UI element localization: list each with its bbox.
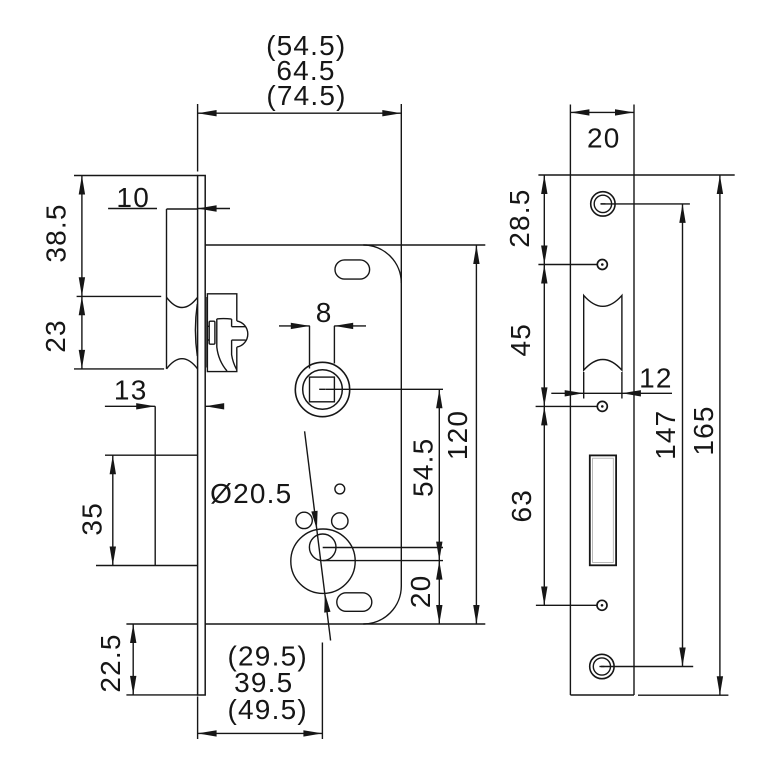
- svg-text:120: 120: [442, 410, 473, 460]
- hub dark bar: [206, 297, 208, 368]
- plate dim 20 arrows: [570, 109, 589, 115]
- dim 20 (plate) line: [570, 111, 634, 113]
- small circle right: [332, 513, 348, 529]
- latch bevel bottom arc: [167, 359, 198, 369]
- dim chain 28.5/45/63 vertical line: [543, 175, 545, 606]
- body bottom edge left extension for 22.5: [126, 623, 197, 625]
- svg-text:8: 8: [316, 297, 333, 328]
- dim 8: right segment: [334, 325, 366, 327]
- small hole 2: [597, 260, 607, 270]
- dim 13 arrows: [136, 403, 155, 409]
- bottom dim arrows: [198, 730, 217, 736]
- latch box top edge: [167, 208, 198, 210]
- hub lever right curve: [232, 340, 237, 369]
- dim 38.5/23: middle extension: [77, 295, 162, 297]
- lock body bottom edge + extension for 120: [205, 623, 485, 625]
- dim 12 arrows: [565, 390, 584, 396]
- top dim arrows: [198, 110, 217, 116]
- svg-text:45: 45: [505, 323, 536, 357]
- svg-text:10: 10: [116, 182, 150, 213]
- dim 45 arrows: [541, 265, 547, 284]
- svg-text:Ø20.5: Ø20.5: [210, 478, 292, 509]
- dim 35 vertical line: [112, 455, 114, 565]
- dim 54.5-64.5-74.5: left extension line: [197, 104, 199, 172]
- dim 20 arrows: [436, 561, 442, 580]
- dim top line: [198, 112, 402, 114]
- deadbolt top edge + 35 extension: [105, 454, 198, 456]
- svg-text:28.5: 28.5: [504, 188, 535, 247]
- bottom dim line: [198, 732, 323, 734]
- cylinder center extension line: [323, 560, 443, 562]
- svg-text:12: 12: [639, 362, 673, 393]
- hub lever top edge: [217, 318, 232, 321]
- arrowheads: [79, 109, 723, 736]
- hub housing box: [207, 294, 236, 372]
- deadbolt bottom edge + 35 extension: [96, 565, 198, 567]
- dim 35 arrows: [110, 455, 116, 474]
- follower center extension line: [326, 388, 443, 390]
- plate left edge: [569, 175, 571, 695]
- leader line for diameter 20.5: [305, 431, 331, 640]
- tiny circle: [335, 484, 345, 494]
- dim 13 line: [105, 405, 155, 407]
- dim 22.5 vertical line: [132, 624, 134, 695]
- svg-text:35: 35: [76, 502, 107, 536]
- small hole 3: [597, 401, 607, 411]
- dim 22.5 arrows: [130, 624, 136, 643]
- hole4 extension line: [536, 604, 597, 606]
- hub cap arc: [237, 321, 248, 347]
- dim 38.5/23 vertical line: [81, 176, 83, 369]
- dim 54.5 arrows: [436, 389, 442, 408]
- dim 8: left segment: [279, 325, 310, 327]
- hub knob stem lines: [232, 327, 246, 340]
- bottom screw hole: [590, 654, 614, 678]
- dim 13 right arrow tail: [205, 405, 224, 407]
- dim 38.5/23: bottom extension: [74, 368, 164, 370]
- bottom oval slot: [337, 593, 372, 612]
- svg-text:38.5: 38.5: [41, 203, 72, 262]
- latch box left edge: [166, 209, 168, 369]
- dim 20 (plate) extensions: [569, 105, 571, 176]
- svg-text:147: 147: [650, 410, 681, 460]
- svg-text:(49.5): (49.5): [228, 694, 308, 725]
- dim 120 vertical line: [475, 245, 477, 624]
- dim 28.5 arrows: [541, 175, 547, 194]
- plate bottom right extension for 165: [638, 694, 728, 696]
- dim 165 arrows: [717, 175, 723, 194]
- cylinder hole circle: [291, 529, 355, 593]
- hub pin box: [209, 321, 215, 344]
- dim 23 arrows: [79, 296, 85, 315]
- dim 8 left extension: [309, 326, 311, 369]
- deadbolt cutout inner line: [593, 458, 614, 562]
- plate bottom edge: [570, 694, 634, 696]
- leader arrows: [311, 511, 317, 530]
- follower square hole 8mm: [310, 377, 335, 402]
- svg-text:22.5: 22.5: [95, 633, 126, 692]
- hole2 extension line: [538, 264, 597, 266]
- hub lever right edge upper: [231, 319, 233, 327]
- top oval slot: [335, 260, 370, 279]
- svg-text:23: 23: [40, 319, 71, 353]
- latch cutout: [584, 295, 622, 370]
- lock body bottom-right corner: [363, 586, 401, 624]
- faceplate bottom extension for 22.5: [126, 694, 197, 696]
- plate top edge with extensions: [538, 174, 734, 176]
- small circle left: [296, 512, 312, 528]
- right extension at cylinder axis: [321, 643, 323, 740]
- dim 8 right extension: [333, 326, 335, 364]
- dim 10 arrow: [198, 205, 217, 211]
- small hole 4: [597, 600, 607, 610]
- follower inner circle: [303, 370, 343, 410]
- lock body top-right corner: [363, 245, 401, 283]
- dim 20 vertical line: [438, 561, 440, 624]
- dim 165 vertical line: [719, 175, 721, 695]
- deadbolt left edge + 13 extension: [154, 406, 156, 565]
- latch bevel top arc: [167, 297, 198, 307]
- dim 12 extensions: [583, 372, 585, 399]
- hole3 extension line: [536, 405, 598, 407]
- lock body right edge + top extension for 74.5: [400, 104, 402, 586]
- svg-text:54.5: 54.5: [407, 438, 438, 497]
- dim 10 arrow tail: [198, 208, 230, 210]
- dim 12 line: [551, 392, 672, 394]
- svg-text:63: 63: [506, 489, 537, 523]
- svg-text:165: 165: [688, 405, 719, 455]
- svg-text:13: 13: [114, 374, 148, 405]
- dim 29.5-39.5-49.5: left extension: [197, 697, 199, 740]
- faceplate (front view, left): [198, 176, 206, 696]
- cylinder inner circle extension line: [323, 547, 443, 549]
- dim 38.5/23: top extension: [74, 175, 198, 177]
- lock body top edge + extension for 120: [205, 244, 485, 246]
- dim 38.5 arrows: [79, 176, 85, 195]
- dim 8 arrows: [291, 323, 310, 329]
- svg-text:20: 20: [405, 575, 436, 609]
- latch bevel tall arc: [195, 304, 197, 356]
- dim 147 arrows: [679, 204, 685, 223]
- top screw hole: [591, 192, 615, 216]
- follower outer circle: [295, 362, 349, 416]
- deadbolt cutout: [590, 455, 616, 565]
- svg-text:20: 20: [587, 122, 621, 153]
- hub lever left edge: [217, 319, 227, 371]
- bottom screw hole extension for 147: [601, 666, 693, 668]
- dim 54.5 vertical line: [438, 389, 440, 560]
- follower center dash: [319, 388, 326, 390]
- plate right edge: [633, 175, 635, 695]
- top screw hole extension line for 147: [601, 203, 690, 205]
- dim 120 arrows: [473, 245, 479, 264]
- dim 147 vertical line: [682, 204, 684, 667]
- svg-text:(74.5): (74.5): [266, 80, 346, 111]
- cylinder inner circle: [309, 534, 336, 561]
- dim 63 arrows: [541, 406, 547, 425]
- dim 10 line under text: [108, 208, 157, 210]
